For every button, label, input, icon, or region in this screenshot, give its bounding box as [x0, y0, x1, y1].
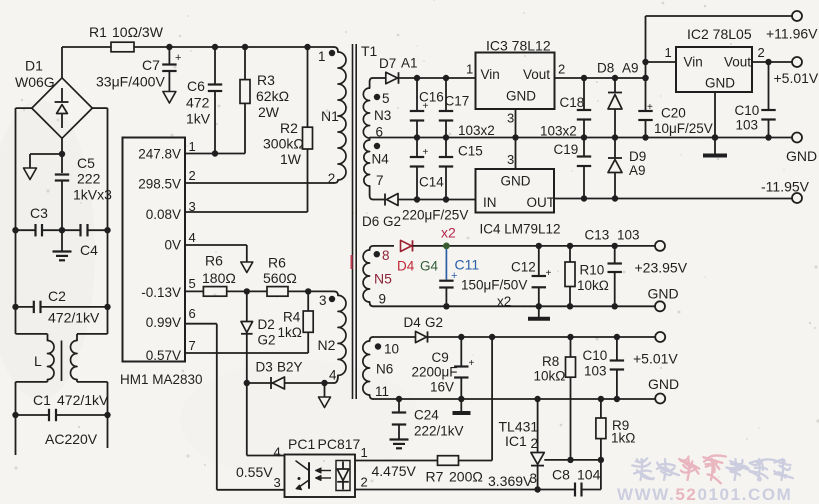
- svg-text:2: 2: [531, 436, 539, 451]
- svg-text:4: 4: [329, 368, 337, 383]
- svg-text:10kΩ: 10kΩ: [534, 369, 566, 384]
- svg-text:GND: GND: [506, 89, 536, 104]
- svg-text:+23.95V: +23.95V: [635, 260, 688, 276]
- svg-text:103: 103: [617, 228, 640, 243]
- svg-text:62kΩ: 62kΩ: [256, 88, 289, 104]
- svg-text:D3: D3: [256, 360, 273, 375]
- svg-text:1: 1: [189, 139, 196, 154]
- svg-text:C5: C5: [77, 155, 95, 171]
- svg-text:200Ω: 200Ω: [449, 469, 483, 485]
- svg-text:R8: R8: [542, 354, 559, 369]
- svg-text:C24: C24: [414, 408, 439, 423]
- svg-text:G2: G2: [425, 315, 443, 330]
- svg-text:D4: D4: [404, 315, 422, 330]
- svg-text:Vin: Vin: [684, 55, 703, 70]
- svg-text:C16: C16: [419, 90, 444, 105]
- svg-text:9: 9: [379, 292, 387, 307]
- svg-text:6: 6: [376, 125, 384, 140]
- svg-text:Vin: Vin: [481, 67, 500, 82]
- svg-text:D8: D8: [597, 61, 614, 76]
- svg-text:D2: D2: [258, 317, 275, 332]
- svg-text:+: +: [647, 102, 653, 113]
- svg-text:1: 1: [318, 49, 326, 64]
- svg-text:1W: 1W: [280, 151, 302, 167]
- svg-text:B2Y: B2Y: [277, 360, 303, 375]
- svg-text:OUT: OUT: [527, 195, 556, 210]
- svg-text:472: 472: [186, 95, 210, 111]
- svg-text:R6: R6: [268, 255, 286, 271]
- svg-text:C17: C17: [445, 94, 470, 109]
- svg-text:1: 1: [361, 445, 368, 460]
- svg-text:C2: C2: [48, 288, 66, 304]
- svg-text:4: 4: [274, 445, 281, 460]
- svg-text:3: 3: [507, 152, 514, 167]
- svg-text:103x2: 103x2: [458, 123, 495, 138]
- svg-text:N4: N4: [372, 152, 390, 167]
- svg-text:G4: G4: [420, 259, 439, 274]
- svg-text:PC817: PC817: [318, 436, 361, 452]
- svg-text:A9: A9: [622, 61, 639, 76]
- svg-text:D4: D4: [397, 259, 415, 274]
- svg-text:560Ω: 560Ω: [263, 270, 297, 286]
- svg-text:PC1: PC1: [288, 436, 315, 452]
- svg-text:C8: C8: [552, 467, 570, 483]
- svg-text:x2: x2: [441, 225, 456, 241]
- svg-text:C1: C1: [33, 392, 51, 408]
- svg-text:150μF/50V: 150μF/50V: [461, 278, 527, 293]
- svg-text:GND: GND: [501, 174, 531, 189]
- svg-text:x2: x2: [497, 294, 511, 309]
- svg-text:3: 3: [319, 293, 327, 308]
- svg-text:C4: C4: [80, 242, 98, 258]
- svg-text:2: 2: [189, 168, 196, 183]
- svg-text:C20: C20: [661, 106, 686, 121]
- svg-text:104: 104: [577, 467, 601, 483]
- svg-text:C11: C11: [455, 257, 480, 273]
- svg-text:AC220V: AC220V: [45, 431, 98, 447]
- svg-text:C9: C9: [432, 350, 449, 365]
- svg-text:472/1kV: 472/1kV: [48, 310, 100, 326]
- svg-text:4.475V: 4.475V: [372, 463, 417, 479]
- svg-text:D6: D6: [362, 214, 379, 229]
- svg-text:103x2: 103x2: [540, 124, 577, 139]
- svg-text:N5: N5: [374, 271, 392, 287]
- svg-text:W06G: W06G: [15, 74, 55, 90]
- svg-text:C3: C3: [30, 205, 48, 221]
- svg-text:C10: C10: [583, 348, 608, 363]
- svg-text:IC2 78L05: IC2 78L05: [687, 26, 752, 42]
- svg-text:2: 2: [558, 62, 565, 77]
- svg-text:+5.01V: +5.01V: [633, 351, 678, 367]
- svg-text:472/1kV: 472/1kV: [57, 392, 109, 408]
- svg-text:1kΩ: 1kΩ: [611, 431, 635, 446]
- svg-text:C18: C18: [560, 95, 585, 110]
- svg-text:+5.01V: +5.01V: [774, 70, 819, 86]
- svg-text:L: L: [34, 353, 42, 369]
- svg-text:D9: D9: [629, 149, 646, 164]
- svg-text:GND: GND: [786, 148, 817, 164]
- svg-text:10kΩ: 10kΩ: [577, 278, 609, 293]
- svg-text:6: 6: [189, 306, 196, 321]
- svg-text:220μF/25V: 220μF/25V: [402, 208, 468, 223]
- svg-text:247.8V: 247.8V: [138, 147, 181, 162]
- svg-text:+11.96V: +11.96V: [766, 26, 818, 42]
- svg-text:C14: C14: [419, 175, 444, 190]
- svg-text:IN: IN: [483, 195, 497, 210]
- svg-text:222/1kV: 222/1kV: [414, 424, 464, 439]
- svg-text:R2: R2: [280, 120, 298, 136]
- svg-text:+: +: [469, 358, 475, 369]
- svg-text:+: +: [423, 147, 429, 158]
- svg-text:2: 2: [758, 45, 765, 60]
- svg-text:-0.13V: -0.13V: [141, 285, 181, 300]
- svg-text:10Ω/3W: 10Ω/3W: [112, 24, 164, 40]
- svg-text:C7: C7: [142, 57, 160, 73]
- svg-text:WWW.520101.COM: WWW.520101.COM: [617, 485, 792, 504]
- svg-text:10μF/25V: 10μF/25V: [654, 121, 713, 136]
- svg-text:GND: GND: [648, 286, 679, 302]
- svg-text:7: 7: [376, 173, 384, 188]
- svg-text:+: +: [546, 268, 552, 279]
- svg-text:C10: C10: [735, 103, 760, 118]
- svg-text:C12: C12: [511, 260, 536, 275]
- svg-text:Vout: Vout: [724, 55, 751, 70]
- svg-text:222: 222: [77, 171, 101, 187]
- svg-text:3: 3: [507, 111, 514, 126]
- svg-text:N1: N1: [321, 108, 339, 124]
- svg-text:N3: N3: [374, 108, 391, 123]
- svg-text:4: 4: [189, 230, 196, 245]
- svg-text:3: 3: [274, 475, 281, 490]
- svg-text:A9: A9: [629, 163, 646, 178]
- svg-text:Vout: Vout: [523, 67, 550, 82]
- svg-text:IC3 78L12: IC3 78L12: [486, 38, 551, 54]
- svg-text:-11.95V: -11.95V: [761, 179, 810, 195]
- svg-text:3: 3: [189, 199, 196, 214]
- svg-text:C6: C6: [187, 78, 205, 94]
- svg-text:0V: 0V: [164, 238, 181, 253]
- svg-text:HM1 MA2830: HM1 MA2830: [120, 372, 203, 387]
- svg-text:11: 11: [375, 384, 389, 399]
- svg-text:1kVx3: 1kVx3: [73, 187, 112, 203]
- svg-text:2: 2: [361, 475, 368, 490]
- svg-text:1kV: 1kV: [186, 111, 211, 127]
- svg-text:0.57V: 0.57V: [146, 348, 181, 363]
- svg-text:10: 10: [384, 342, 399, 357]
- svg-text:C15: C15: [458, 144, 483, 159]
- svg-text:300kΩ: 300kΩ: [263, 136, 304, 152]
- svg-text:180Ω: 180Ω: [202, 270, 236, 286]
- svg-text:1kΩ: 1kΩ: [278, 325, 302, 340]
- svg-text:16V: 16V: [430, 380, 454, 395]
- svg-text:1: 1: [466, 62, 473, 77]
- svg-text:5: 5: [382, 91, 390, 106]
- svg-text:C13: C13: [585, 228, 610, 243]
- svg-text:1: 1: [665, 45, 672, 60]
- svg-text:IC4 LM79L12: IC4 LM79L12: [480, 222, 561, 237]
- svg-text:3: 3: [530, 471, 538, 486]
- svg-text:G2: G2: [383, 214, 401, 229]
- svg-text:R1: R1: [89, 24, 107, 40]
- svg-text:IC1: IC1: [505, 433, 527, 449]
- svg-text:D1: D1: [25, 58, 43, 74]
- svg-text:0.99V: 0.99V: [146, 315, 181, 330]
- svg-text:103: 103: [736, 118, 759, 133]
- svg-text:7: 7: [189, 338, 196, 353]
- svg-text:G2: G2: [258, 333, 276, 348]
- svg-text:C19: C19: [554, 142, 579, 157]
- svg-text:R3: R3: [257, 72, 275, 88]
- svg-text:R6: R6: [205, 253, 223, 269]
- svg-text:N6: N6: [376, 362, 393, 377]
- svg-text:T1: T1: [361, 43, 378, 59]
- svg-text:0.08V: 0.08V: [146, 207, 181, 222]
- svg-text:8: 8: [382, 248, 390, 263]
- svg-text:0.55V: 0.55V: [236, 464, 273, 480]
- svg-text:R10: R10: [580, 263, 605, 278]
- svg-text:2: 2: [328, 171, 336, 186]
- svg-text:R7: R7: [426, 469, 444, 485]
- svg-text:A1: A1: [401, 56, 418, 71]
- svg-text:2200μF: 2200μF: [412, 365, 458, 380]
- svg-text:103: 103: [584, 364, 607, 379]
- svg-text:D7: D7: [379, 56, 396, 71]
- svg-text:298.5V: 298.5V: [138, 177, 181, 192]
- svg-text:N2: N2: [318, 337, 336, 353]
- svg-text:2W: 2W: [258, 104, 280, 120]
- svg-text:5: 5: [189, 276, 196, 291]
- svg-text:+: +: [175, 52, 181, 64]
- svg-text:GND: GND: [648, 376, 679, 392]
- svg-text:GND: GND: [705, 76, 735, 91]
- svg-text:33μF/400V: 33μF/400V: [96, 74, 165, 90]
- svg-text:3.369V: 3.369V: [488, 473, 533, 489]
- svg-text:R4: R4: [283, 310, 301, 325]
